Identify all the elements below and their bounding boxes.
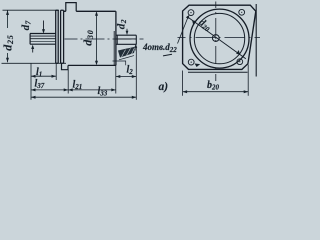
dim d25 line (6, 10, 9, 62)
flange plate lower edge line (188, 71, 248, 73)
flange disc (56, 10, 64, 63)
dim l33 line (31, 96, 136, 99)
hole bottom-right (237, 59, 243, 65)
dim b20 line (183, 90, 249, 93)
wire hatch lower slant (119, 56, 134, 60)
hole top-right (239, 9, 245, 15)
wire centerline side view (65, 38, 144, 40)
dim l1 l37 l33 left extension (31, 47, 136, 100)
stud right pin (117, 35, 137, 44)
dim l37 l21 line (31, 88, 116, 91)
top terminal box (66, 3, 76, 12)
leader 4otv to hole (163, 15, 190, 56)
page border line (255, 4, 257, 77)
wire under-stud step line (113, 61, 126, 65)
dim b20 extensions (183, 65, 249, 96)
dim d20 diagonal (187, 17, 246, 59)
labels (1, 17, 220, 98)
body circle inner (194, 13, 244, 63)
flange plate square (183, 5, 256, 69)
dim d30 line (95, 11, 98, 65)
hole bottom-left (188, 59, 200, 67)
body circle outer (190, 9, 249, 68)
body cylinder (64, 11, 118, 65)
center target (212, 35, 219, 42)
dim d2 arrows (126, 29, 138, 51)
centerline vertical right view (215, 2, 217, 82)
lead left pin (30, 34, 56, 45)
centerline horizontal right view (178, 37, 274, 39)
thread hatch block (118, 47, 136, 58)
dim d25 extension lines (2, 10, 67, 63)
dim l1 line (31, 75, 56, 78)
bottom terminal box (62, 63, 69, 69)
svg-text:а): а) (159, 81, 169, 93)
hole top-left (188, 10, 194, 16)
dim d7 arrows (31, 21, 45, 53)
dim l2 line (116, 75, 137, 78)
